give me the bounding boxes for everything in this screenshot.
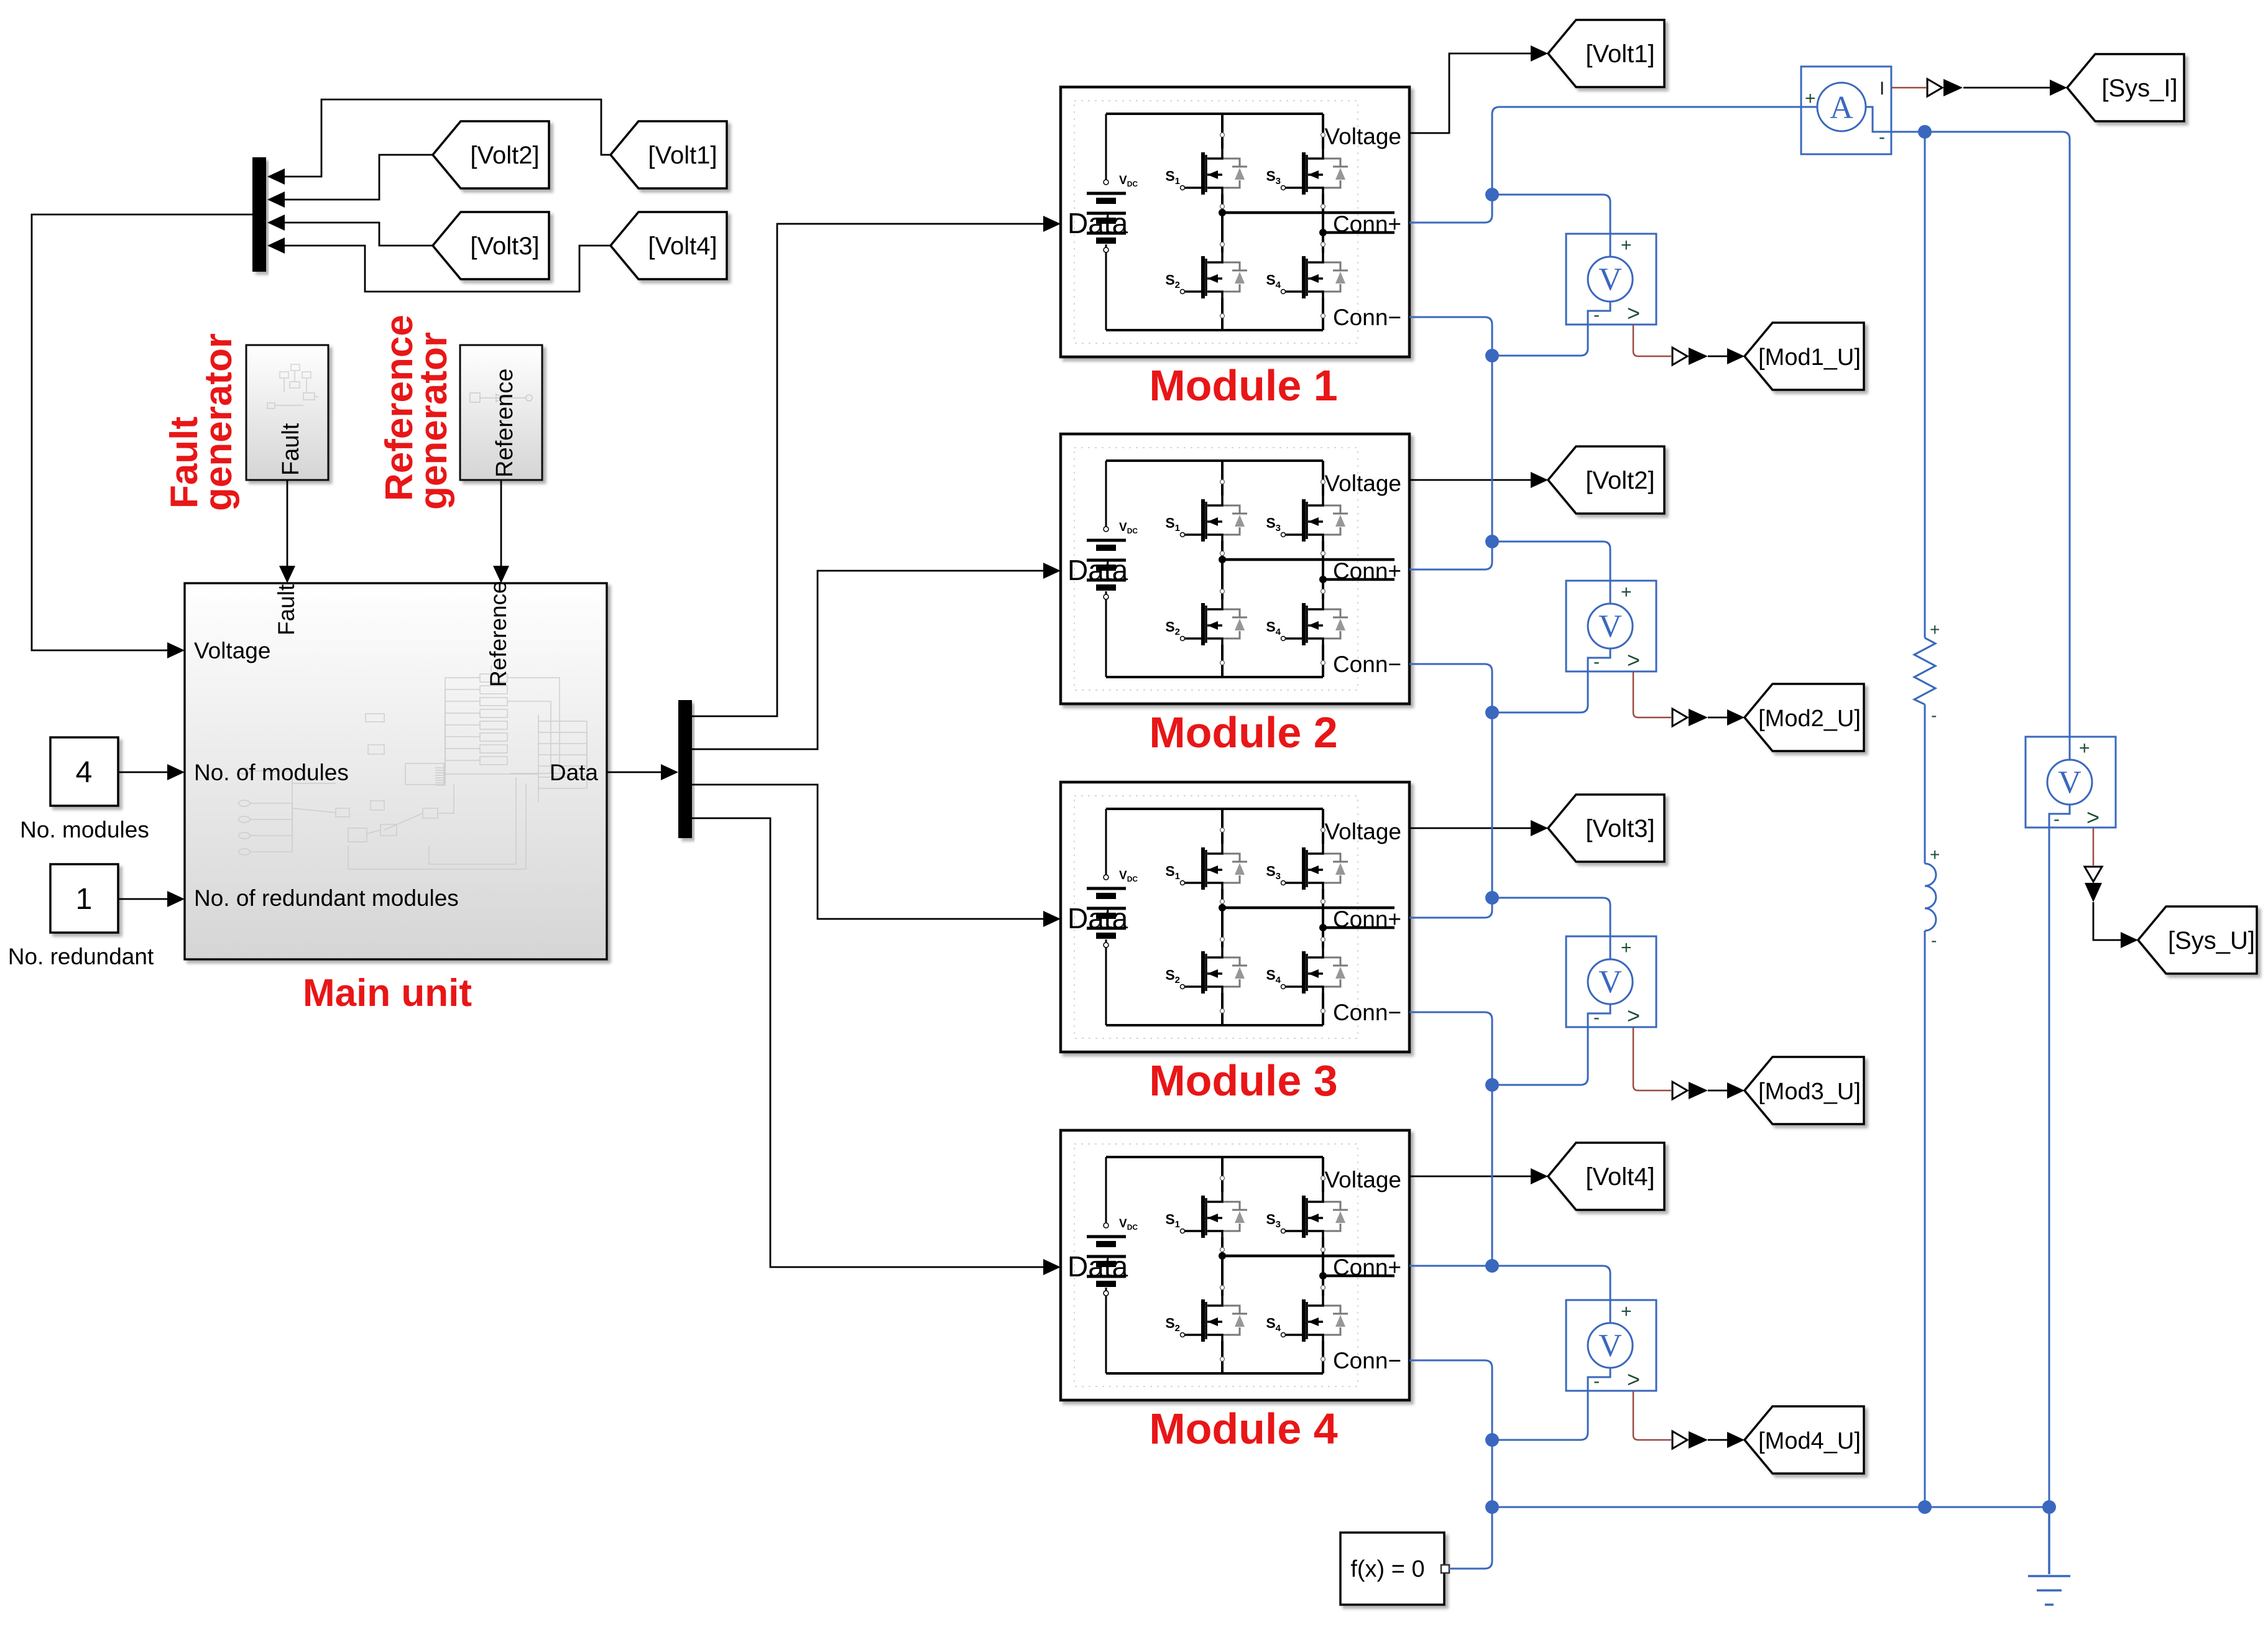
arrowhead Module 2 Data	[1043, 563, 1061, 579]
junction node V3+ tap	[1485, 891, 1499, 905]
Goto tag [Volt3]	[1548, 795, 1664, 862]
wire bottom return	[1492, 1506, 2049, 1508]
wire V2 output (measurement)	[1633, 671, 1671, 717]
svg-text:[Mod4_U]: [Mod4_U]	[1758, 1428, 1861, 1454]
svg-text:No. modules: No. modules	[20, 817, 149, 842]
wire [Volt4] to mux input 4	[281, 246, 611, 292]
svg-text:Module 1: Module 1	[1149, 361, 1337, 410]
junction node V2-	[1485, 706, 1499, 719]
wire to [Mod1_U]	[1708, 356, 1728, 357]
svg-text:V: V	[2058, 765, 2081, 800]
svg-text:[Volt4]: [Volt4]	[1585, 1163, 1654, 1191]
arrowhead Fault input	[279, 566, 295, 583]
svg-text:-: -	[1931, 706, 1937, 725]
wire solver to bottom node	[1449, 1507, 1492, 1569]
Goto tag [Mod2_U]	[1745, 684, 1864, 751]
junction node bottom left	[1485, 1500, 1499, 1514]
wire Module 1 Conn- to Module 2 Conn+	[1409, 317, 1492, 569]
signal conversion pair	[1672, 1431, 1687, 1449]
wire Current Sensor - to load and Sys voltmeter +	[1891, 132, 2070, 737]
Goto tag [Volt2]	[1548, 446, 1664, 514]
svg-text:-: -	[1931, 931, 1937, 950]
arrowhead mux input 1	[267, 168, 285, 185]
wire demux out 2 to Module 2 Data	[692, 571, 1055, 749]
wire tap to V1 +	[1492, 195, 1610, 234]
constant block 4	[50, 737, 118, 806]
Voltage Sensor V2 (module 2)	[1566, 581, 1656, 673]
svg-text:Module 2: Module 2	[1149, 708, 1337, 757]
arrowhead [Volt4]	[1531, 1168, 1548, 1184]
wire Sys voltmeter - to bottom node	[2049, 828, 2050, 1507]
Main unit subsystem	[185, 583, 607, 959]
svg-text:>: >	[1627, 1003, 1640, 1028]
svg-text:Fault: Fault	[274, 584, 299, 635]
wire demux out 3 to Module 3 Data	[692, 785, 1055, 919]
junction node V4-	[1485, 1433, 1499, 1447]
svg-text:V: V	[1598, 609, 1622, 644]
wire tap to V3 +	[1492, 898, 1610, 936]
wire Current Sensor I output	[1891, 87, 1926, 89]
signal conversion pair	[1672, 348, 1687, 365]
svg-text:generator: generator	[197, 333, 240, 511]
svg-text:+: +	[1930, 620, 1940, 639]
junction node V2+ tap	[1485, 535, 1499, 548]
Goto tag [Sys_U]	[2138, 906, 2257, 974]
wire V3 - to junction	[1492, 1027, 1588, 1085]
arrowhead [Mod3_U]	[1727, 1082, 1745, 1099]
Goto tag [Mod3_U]	[1745, 1057, 1864, 1124]
wire to [Sys_I]	[1963, 87, 2050, 89]
Solver Configuration f(x)=0	[1340, 1533, 1444, 1605]
svg-text:-: -	[1879, 127, 1885, 147]
wire Fault generator to Main unit	[287, 480, 288, 578]
svg-text:>: >	[1627, 1367, 1640, 1392]
svg-text:+: +	[1621, 1301, 1632, 1322]
arrowhead No. of modules input	[167, 764, 185, 780]
arrowhead Module 3 Data	[1043, 911, 1061, 927]
wire V1 output (measurement)	[1633, 325, 1671, 356]
arrowhead [Sys_I]	[2050, 80, 2067, 96]
svg-text:+: +	[1930, 845, 1940, 864]
svg-text:[Sys_U]: [Sys_U]	[2168, 927, 2255, 954]
junction node V1-	[1485, 349, 1499, 362]
wire to [Sys_U]	[2093, 902, 2121, 940]
wire V4 - to junction	[1492, 1391, 1588, 1440]
wire load column (upper)	[1924, 132, 1926, 638]
wire Sys voltmeter output	[2093, 828, 2095, 865]
wire tap to V4 +	[1492, 1266, 1610, 1300]
svg-text:-: -	[1593, 1007, 1600, 1028]
arrowhead [Mod1_U]	[1727, 348, 1745, 364]
Voltage Sensor Sys (system voltage)	[2026, 737, 2116, 830]
wire constant 1 to Main unit	[118, 898, 179, 900]
svg-text:[Volt1]: [Volt1]	[1585, 40, 1654, 68]
svg-text:Fault: Fault	[278, 423, 304, 476]
svg-text:4: 4	[76, 756, 93, 789]
svg-text:+: +	[1621, 582, 1632, 602]
Goto tag [Mod4_U]	[1745, 1406, 1864, 1473]
arrowhead [Volt2]	[1531, 472, 1548, 488]
wire Module 1 Conn+ to Current Sensor +	[1409, 107, 1801, 223]
wire Module 2 Conn- to Module 3 Conn+	[1409, 664, 1492, 918]
svg-text:[Volt2]: [Volt2]	[1585, 467, 1654, 494]
Goto tag [Sys_I]	[2067, 54, 2184, 121]
arrowhead Module 1 Data	[1043, 216, 1061, 232]
svg-text:[Mod3_U]: [Mod3_U]	[1758, 1079, 1861, 1105]
Module 3 subsystem (battery VDC + H-bridge S1-S4)	[1061, 782, 1409, 1052]
signal conversion pair	[2085, 867, 2102, 882]
svg-text:Data: Data	[550, 760, 599, 785]
junction node bottom load	[1918, 1500, 1932, 1514]
wire demux out 4 to Module 4 Data	[692, 818, 1055, 1267]
Voltage Sensor V3 (module 3)	[1566, 936, 1656, 1028]
svg-text:-: -	[1593, 652, 1600, 672]
svg-text:V: V	[1598, 1328, 1622, 1363]
wire V2 - to junction	[1492, 671, 1588, 712]
signal conversion pair	[1672, 709, 1687, 726]
arrowhead mux input 3	[267, 214, 285, 231]
Main unit inner screenshot (faint)	[239, 659, 591, 869]
svg-text:No. of modules: No. of modules	[194, 760, 349, 785]
svg-text:>: >	[2086, 805, 2100, 830]
wire Main unit Data to demux	[607, 772, 661, 773]
arrowhead [Volt3]	[1531, 820, 1548, 836]
junction node V3-	[1485, 1078, 1499, 1092]
wire to [Mod3_U]	[1708, 1090, 1728, 1092]
wire mux output to Main unit Voltage	[32, 214, 252, 650]
svg-text:V: V	[1598, 964, 1622, 1000]
From tag [Volt1]	[611, 121, 727, 188]
arrowhead [Sys_U]	[2121, 932, 2138, 948]
wire to [Mod2_U]	[1708, 717, 1728, 719]
svg-text:+: +	[1621, 938, 1632, 958]
wire Reference generator to Main unit	[500, 480, 502, 578]
Voltage Sensor V1 (module 1)	[1566, 234, 1656, 326]
svg-text:[Volt2]: [Volt2]	[470, 142, 539, 169]
wire [Volt3] to mux input 3	[281, 223, 433, 246]
svg-text:>: >	[1627, 647, 1640, 673]
svg-text:[Volt1]: [Volt1]	[648, 142, 717, 169]
From tag [Volt4]	[611, 212, 727, 279]
From tag [Volt2]	[433, 121, 549, 188]
svg-text:No. redundant: No. redundant	[8, 944, 154, 969]
Current Sensor (ammeter A)	[1801, 67, 1891, 154]
Module 4 subsystem (battery VDC + H-bridge S1-S4)	[1061, 1130, 1409, 1400]
wire Module 4 Conn- to bottom node	[1409, 1360, 1492, 1507]
constant block 1	[50, 864, 118, 933]
From tag [Volt3]	[433, 212, 549, 279]
svg-text:[Volt3]: [Volt3]	[470, 233, 539, 260]
wire constant 4 to Main unit	[118, 772, 179, 773]
wire V3 output (measurement)	[1633, 1027, 1671, 1091]
wire Module 4 Voltage to [Volt4]	[1409, 1176, 1531, 1178]
junction node bottom ground	[2042, 1500, 2056, 1514]
svg-text:-: -	[1593, 1371, 1600, 1391]
Goto tag [Volt1]	[1548, 20, 1664, 87]
arrowhead Module 4 Data	[1043, 1259, 1061, 1275]
svg-text:V: V	[1598, 262, 1622, 297]
svg-text:generator: generator	[412, 332, 455, 510]
wire demux out 1 to Module 1 Data	[692, 224, 1055, 716]
resistor R	[1914, 638, 1935, 704]
Fault generator subsystem	[246, 345, 328, 480]
Voltage Sensor V4 (module 4)	[1566, 1300, 1656, 1392]
svg-text:Module 3: Module 3	[1149, 1056, 1337, 1105]
Reference generator subsystem	[460, 345, 542, 480]
wire to [Mod4_U]	[1708, 1439, 1728, 1441]
wire Module 3 Conn- to Module 4 Conn+	[1409, 1012, 1492, 1266]
wire Module 3 Voltage to [Volt3]	[1409, 828, 1531, 829]
mux block (4 voltages)	[252, 157, 266, 272]
wire [Volt2] to mux input 2	[281, 155, 433, 200]
ground (electrical reference)	[2028, 1507, 2070, 1605]
demux block (Data)	[678, 700, 692, 838]
wire [Volt1] to mux input 1	[281, 99, 611, 177]
svg-text:Reference: Reference	[486, 581, 511, 687]
wire Module 1 Voltage to [Volt1]	[1409, 53, 1531, 133]
svg-text:Voltage: Voltage	[194, 638, 270, 663]
svg-text:Reference: Reference	[492, 369, 518, 477]
junction node load branch	[1918, 125, 1932, 139]
junction node V4+ tap	[1485, 1259, 1499, 1273]
svg-text:+: +	[2079, 738, 2090, 759]
svg-text:[Mod1_U]: [Mod1_U]	[1758, 344, 1861, 371]
svg-text:-: -	[2054, 809, 2060, 829]
Goto tag [Mod1_U]	[1745, 323, 1864, 390]
svg-text:+: +	[1621, 235, 1632, 256]
svg-text:A: A	[1830, 90, 1853, 126]
Module 1 subsystem (battery VDC + H-bridge S1-S4)	[1061, 87, 1409, 357]
wire load column (lower)	[1924, 931, 1926, 1507]
svg-text:No. of redundant modules: No. of redundant modules	[194, 885, 459, 911]
arrowhead Main unit Voltage input	[167, 642, 185, 658]
wire tap to V2 +	[1492, 542, 1610, 581]
signal conversion pair	[1672, 1082, 1687, 1099]
svg-text:1: 1	[76, 883, 93, 916]
arrowhead [Mod2_U]	[1727, 709, 1745, 726]
svg-text:[Sys_I]: [Sys_I]	[2101, 75, 2177, 102]
arrowhead mux input 4	[267, 237, 285, 254]
arrowhead mux input 2	[267, 191, 285, 208]
wire Module 2 Voltage to [Volt2]	[1409, 479, 1531, 481]
svg-text:Module 4: Module 4	[1149, 1404, 1337, 1453]
svg-text:-: -	[1593, 305, 1600, 325]
svg-text:[Mod2_U]: [Mod2_U]	[1758, 706, 1861, 732]
signal conversion pair	[1927, 79, 1942, 96]
arrowhead No. of redundant modules input	[167, 891, 185, 907]
arrowhead demux input	[661, 764, 678, 780]
Goto tag [Volt4]	[1548, 1143, 1664, 1210]
svg-text:f(x) = 0: f(x) = 0	[1350, 1556, 1424, 1582]
inductor L	[1925, 864, 1936, 931]
svg-text:I: I	[1879, 78, 1884, 99]
arrowhead Reference input	[493, 566, 509, 583]
Module 2 subsystem (battery VDC + H-bridge S1-S4)	[1061, 434, 1409, 704]
svg-text:[Volt4]: [Volt4]	[648, 233, 717, 260]
svg-text:+: +	[1805, 88, 1816, 109]
wire V4 output (measurement)	[1633, 1391, 1671, 1440]
junction node V1+ tap	[1485, 188, 1499, 201]
wire between R and L	[1924, 704, 1926, 864]
arrowhead [Volt1]	[1531, 45, 1548, 62]
svg-text:[Volt3]: [Volt3]	[1585, 815, 1654, 842]
wire V1 - to junction	[1492, 325, 1588, 356]
svg-text:Main unit: Main unit	[303, 972, 472, 1015]
arrowhead [Mod4_U]	[1727, 1432, 1745, 1448]
svg-text:>: >	[1627, 300, 1640, 326]
